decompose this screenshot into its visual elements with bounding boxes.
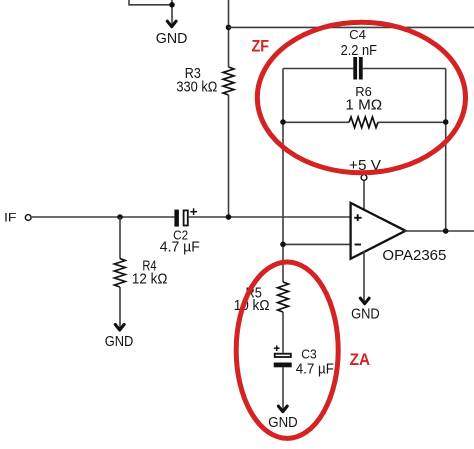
capacitor C3 bbox=[274, 347, 280, 349]
wire vertical bus x=228.5 lower bbox=[228, 95, 230, 217]
svg-text:4.7 µF: 4.7 µF bbox=[296, 362, 334, 378]
wire IF line left segment bbox=[32, 216, 175, 218]
capacitor C2 bbox=[174, 210, 179, 227]
svg-text:330 kΩ: 330 kΩ bbox=[176, 80, 217, 96]
resistor R3 bbox=[223, 67, 234, 95]
svg-text:C3: C3 bbox=[301, 347, 316, 362]
svg-text:ZA: ZA bbox=[350, 351, 370, 369]
svg-text:1 MΩ: 1 MΩ bbox=[345, 97, 382, 113]
node junction R6 right bbox=[443, 119, 449, 125]
op-amp U1 OPA2365 bbox=[351, 203, 406, 259]
wire C4 branch left bbox=[283, 68, 353, 70]
node junction output feedback bbox=[443, 228, 449, 234]
annotation ellipse ZA bbox=[236, 262, 338, 438]
wire top-left horizontal with stub bbox=[129, 0, 172, 5]
node junction R6 left bbox=[280, 119, 286, 125]
wire R5 to C3 bbox=[282, 312, 284, 353]
wire R6 branch left bbox=[283, 121, 349, 123]
svg-text:GND: GND bbox=[268, 415, 297, 431]
wire top-left vertical to ground bbox=[171, 0, 173, 25]
svg-text:4.7 µF: 4.7 µF bbox=[160, 239, 200, 255]
wire IF line right segment to op-amp + input bbox=[189, 216, 351, 218]
node junction C2/R3 bbox=[226, 214, 232, 220]
wire R4 lower lead bbox=[119, 287, 121, 328]
wire R6 branch right bbox=[378, 121, 446, 123]
svg-text:ZF: ZF bbox=[252, 38, 270, 56]
wire R4 upper lead bbox=[119, 217, 121, 259]
wire op-amp ground lead bbox=[363, 251, 365, 302]
wire ZF left vertical (inverting node) bbox=[282, 69, 284, 283]
node junction inverting input bbox=[280, 242, 286, 248]
wire C4 branch right bbox=[363, 68, 446, 70]
svg-text:2.2 nF: 2.2 nF bbox=[341, 43, 378, 59]
wire supply to op-amp bbox=[363, 181, 365, 211]
wire ZF right vertical bbox=[445, 69, 447, 232]
ground (op-amp) bbox=[360, 298, 369, 304]
ground (C3) bbox=[278, 406, 287, 412]
wire C3 to ground bbox=[282, 367, 284, 409]
resistor R6 bbox=[349, 117, 378, 128]
resistor R5 bbox=[278, 282, 289, 312]
svg-text:GND: GND bbox=[105, 334, 134, 350]
ground (R4) bbox=[115, 325, 124, 331]
svg-text:12 kΩ: 12 kΩ bbox=[132, 272, 168, 288]
svg-text:C4: C4 bbox=[349, 27, 366, 42]
svg-text:IF: IF bbox=[4, 211, 17, 225]
wire vertical bus x=228.5 upper bbox=[228, 0, 230, 67]
wire top horizontal to right edge bbox=[229, 26, 474, 28]
wire op-amp output bbox=[404, 230, 474, 232]
node junction R4 branch bbox=[117, 214, 123, 220]
capacitor C4 bbox=[353, 57, 357, 80]
svg-text:OPA2365: OPA2365 bbox=[382, 248, 446, 264]
annotation ellipse ZF bbox=[257, 22, 465, 173]
node top-left junction bbox=[169, 2, 175, 8]
ground (top-left) bbox=[167, 21, 176, 27]
svg-text:GND: GND bbox=[351, 306, 380, 322]
svg-text:GND: GND bbox=[156, 31, 188, 47]
resistor R4 bbox=[114, 259, 125, 288]
wire to op-amp - input bbox=[283, 243, 351, 245]
node junction top bus bbox=[226, 25, 232, 31]
